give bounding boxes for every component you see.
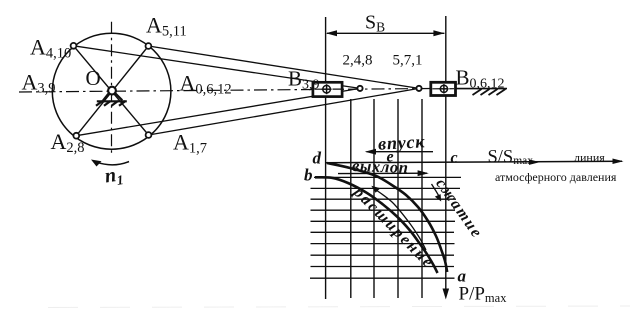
- svg-text:линия: линия: [574, 151, 605, 165]
- svg-text:P/Pmax: P/Pmax: [459, 284, 508, 306]
- svg-text:A3,9: A3,9: [22, 70, 56, 97]
- svg-text:2,4,8: 2,4,8: [343, 53, 373, 69]
- pin 2,4,8: [357, 86, 362, 91]
- crank spoke A2,8 to A5,11: [76, 46, 148, 136]
- svg-text:атмосферного давления: атмосферного давления: [495, 170, 617, 184]
- svg-text:A1,7: A1,7: [173, 130, 207, 157]
- pin 5,7,1: [416, 86, 421, 91]
- svg-text:A5,11: A5,11: [146, 13, 187, 40]
- joint A2,8: [73, 133, 79, 139]
- grid vertical 3: [397, 99, 399, 298]
- expansion direction arrow: [374, 189, 426, 251]
- slider B3,9 box: [313, 82, 342, 96]
- ground hatching: [473, 89, 506, 95]
- grid vertical 4: [421, 99, 423, 298]
- P axis arrowhead: [443, 289, 450, 300]
- pivot ground at O: [96, 94, 127, 106]
- thick curve b to a (expansion): [315, 177, 438, 273]
- svg-text:n1: n1: [103, 163, 124, 189]
- n1 rotation arrow: [96, 162, 130, 165]
- svg-text:впуск: впуск: [378, 131, 426, 153]
- SB dimension line: [327, 32, 444, 34]
- grid vertical 1: [350, 99, 352, 298]
- slider B0,6,12 pin: [439, 84, 448, 93]
- grid horizontals: [310, 188, 460, 278]
- rod A1,7 to pin 5,7,1: [149, 88, 420, 135]
- rod A4,10 to pin 2,4,8: [74, 46, 361, 89]
- svg-text:O: O: [86, 66, 101, 90]
- svg-text:e: e: [387, 149, 394, 166]
- slider B0,6,12 box: [431, 82, 456, 95]
- intake arrow (vpusk): [367, 151, 434, 153]
- grid vertical 2: [373, 99, 375, 298]
- ground line right of B0,6,12: [456, 88, 508, 90]
- tall vertical line left (d / B3,9): [325, 17, 327, 299]
- svg-text:выхлоп: выхлоп: [352, 156, 409, 177]
- crank spoke A4,10 to A1,7: [74, 46, 149, 135]
- joint A1,7: [146, 132, 152, 138]
- svg-text:5,7,1: 5,7,1: [393, 53, 423, 69]
- vertical centerline: [111, 22, 113, 155]
- svg-text:S/Smax: S/Smax: [488, 147, 534, 167]
- joint A4,10: [71, 43, 77, 49]
- exhaust arrow (vykhlop): [338, 172, 427, 174]
- joint A5,11: [146, 43, 152, 49]
- faint scan smudge bottom: [48, 306, 630, 308]
- svg-text:d: d: [313, 149, 322, 168]
- centerline inside B0,6,12 box: [432, 88, 454, 90]
- pivot pin circle O: [108, 87, 116, 95]
- grid horizontal b line: [314, 176, 461, 178]
- rod A2,8 to pin 2,4,8: [76, 88, 360, 135]
- svg-text:расширение: расширение: [349, 182, 438, 272]
- atmospheric axis line d-c-right: [326, 161, 622, 162]
- svg-text:A0,6,12: A0,6,12: [180, 71, 232, 98]
- centerline inside B3,9 box: [315, 88, 342, 90]
- svg-text:B0,6,12: B0,6,12: [456, 66, 505, 92]
- svg-text:c: c: [451, 150, 458, 167]
- horizontal centerline: [19, 88, 455, 92]
- svg-text:b: b: [304, 166, 313, 185]
- svg-text:SB: SB: [365, 12, 385, 35]
- rod A5,11 to pin 5,7,1: [148, 46, 419, 88]
- slider B3,9 pin: [322, 84, 332, 94]
- compression direction arrow: [432, 184, 441, 199]
- tall vertical line right (c / B0,6,12 / P axis): [445, 16, 447, 293]
- crank circle: [52, 33, 171, 149]
- svg-text:A4,10: A4,10: [30, 35, 71, 62]
- thick curve d to a (exhaust/compression boundary): [327, 163, 447, 272]
